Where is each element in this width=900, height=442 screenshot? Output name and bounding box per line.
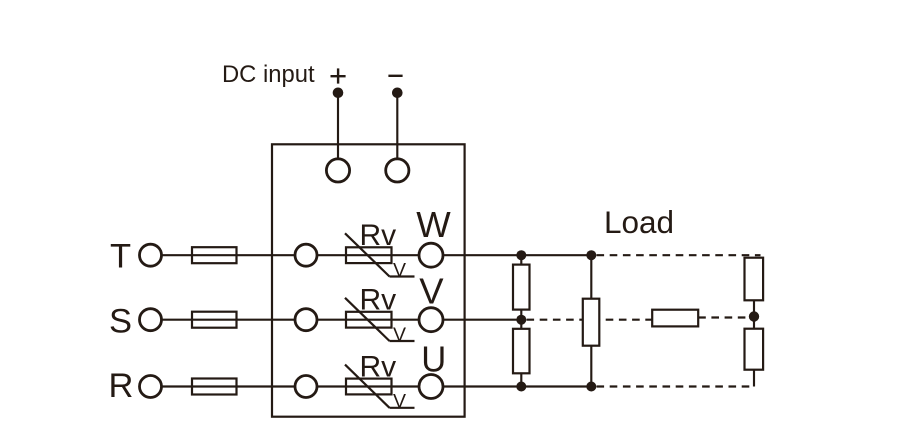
svg-text:U: U: [421, 339, 446, 380]
svg-text:R: R: [109, 367, 134, 405]
svg-text:Rv: Rv: [360, 284, 397, 317]
svg-text:V: V: [393, 260, 406, 282]
svg-text:S: S: [109, 302, 132, 340]
svg-text:T: T: [110, 238, 131, 276]
svg-text:Load: Load: [604, 204, 674, 240]
svg-text:Rv: Rv: [360, 219, 397, 252]
svg-text:V: V: [393, 391, 406, 413]
svg-text:Rv: Rv: [360, 351, 397, 384]
svg-text:V: V: [419, 271, 444, 312]
svg-text:V: V: [393, 324, 406, 346]
svg-text:W: W: [416, 204, 451, 245]
svg-text:DC input: DC input: [222, 61, 315, 88]
